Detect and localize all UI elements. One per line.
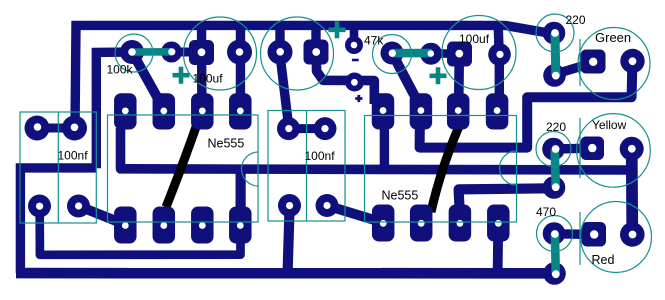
- svg-text:100k: 100k: [107, 63, 134, 77]
- svg-text:100nf: 100nf: [305, 149, 336, 163]
- svg-text:Yellow: Yellow: [592, 118, 627, 132]
- svg-text:Ne555: Ne555: [382, 189, 419, 203]
- svg-text:470: 470: [536, 205, 556, 219]
- svg-text:100uf: 100uf: [459, 32, 490, 46]
- svg-text:100nf: 100nf: [58, 149, 89, 163]
- svg-text:100uf: 100uf: [193, 72, 224, 86]
- svg-text:Ne555: Ne555: [208, 137, 245, 151]
- svg-text:Green: Green: [595, 30, 631, 45]
- svg-text:220: 220: [566, 13, 586, 27]
- svg-text:47k: 47k: [364, 34, 384, 48]
- svg-text:Red: Red: [592, 253, 615, 267]
- svg-text:220: 220: [546, 120, 566, 134]
